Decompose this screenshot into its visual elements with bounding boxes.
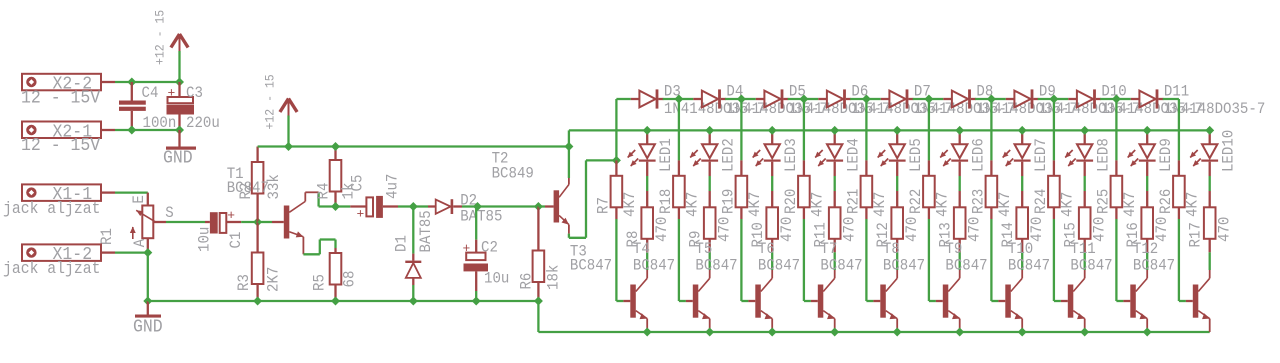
diode D2 bbox=[413, 192, 502, 226]
svg-text:BC847: BC847 bbox=[1070, 256, 1112, 274]
svg-text:R21: R21 bbox=[844, 189, 862, 214]
node ladder tap 10 wire bbox=[1178, 99, 1180, 160]
LED LED8 bbox=[1065, 130, 1113, 176]
wire bbox=[1146, 252, 1148, 270]
connector X2-2 bbox=[21, 74, 115, 109]
svg-text:BC847: BC847 bbox=[1008, 256, 1050, 274]
svg-text:LED5: LED5 bbox=[907, 138, 925, 172]
resistor R14 (470) bbox=[999, 191, 1046, 252]
junction bbox=[1018, 328, 1027, 337]
node ladder tap 9 wire bbox=[1115, 99, 1117, 160]
resistor R22 (4K7) bbox=[907, 160, 952, 219]
junction bbox=[175, 126, 184, 135]
svg-text:R17: R17 bbox=[1187, 222, 1205, 247]
wire (to transistor base) bbox=[616, 219, 623, 301]
junction bbox=[127, 78, 136, 87]
svg-text:R23: R23 bbox=[969, 189, 987, 214]
potentiometer R1 bbox=[98, 193, 174, 253]
svg-text:4K7: 4K7 bbox=[808, 192, 826, 217]
wire bbox=[287, 116, 289, 147]
svg-text:C5: C5 bbox=[349, 175, 367, 192]
LED LED2 bbox=[690, 130, 738, 176]
transistor T5 bbox=[686, 240, 738, 332]
svg-text:LED1: LED1 bbox=[657, 138, 675, 172]
junction bbox=[253, 297, 262, 306]
resistor R13 (470) bbox=[937, 191, 984, 252]
svg-text:470: 470 bbox=[1091, 217, 1109, 242]
junction bbox=[127, 126, 136, 135]
wire bbox=[834, 176, 836, 191]
wire bbox=[1021, 176, 1023, 191]
node ladder tap 8 wire bbox=[1053, 99, 1055, 160]
junction bbox=[674, 95, 683, 104]
svg-text:C3: C3 bbox=[186, 84, 203, 102]
svg-text:LED4: LED4 bbox=[845, 138, 863, 172]
resistor R11 (470) bbox=[812, 191, 859, 252]
resistor R10 (470) bbox=[749, 191, 796, 252]
svg-text:68: 68 bbox=[341, 271, 359, 288]
svg-text:T11: T11 bbox=[1070, 240, 1095, 258]
svg-text:LED8: LED8 bbox=[1095, 138, 1113, 172]
diode D5 bbox=[741, 83, 890, 119]
svg-text:A: A bbox=[131, 238, 149, 247]
svg-text:LED2: LED2 bbox=[720, 138, 738, 172]
wire bbox=[709, 176, 711, 191]
junction bbox=[564, 142, 573, 151]
svg-text:470: 470 bbox=[716, 217, 734, 242]
junction bbox=[830, 126, 839, 135]
svg-text:S: S bbox=[165, 204, 173, 222]
node ladder tap 7 wire bbox=[990, 99, 992, 160]
svg-text:BC847: BC847 bbox=[227, 179, 269, 197]
wire bbox=[1209, 252, 1211, 270]
svg-text:+: + bbox=[227, 208, 235, 223]
svg-text:R1: R1 bbox=[98, 228, 116, 245]
wire (T1 collector to R4 node) bbox=[319, 192, 336, 206]
svg-text:T8: T8 bbox=[883, 240, 900, 258]
svg-text:T9: T9 bbox=[945, 240, 962, 258]
svg-text:R5: R5 bbox=[310, 274, 328, 291]
diode D6 bbox=[804, 83, 953, 119]
junction bbox=[1080, 328, 1089, 337]
svg-text:D11: D11 bbox=[1164, 83, 1189, 101]
junction bbox=[409, 297, 418, 306]
junction bbox=[409, 202, 418, 211]
wire (to transistor base) bbox=[866, 219, 873, 301]
resistor R18 (4K7) bbox=[657, 160, 702, 219]
LED LED1 bbox=[627, 130, 675, 176]
svg-text:470: 470 bbox=[903, 217, 921, 242]
svg-text:BAT85: BAT85 bbox=[460, 208, 502, 226]
LED LED4 bbox=[815, 130, 863, 176]
diode D4 bbox=[679, 83, 828, 119]
resistor R23 (4K7) bbox=[969, 160, 1014, 219]
LED LED6 bbox=[940, 130, 988, 176]
resistor R19 (4K7) bbox=[719, 160, 764, 219]
wire (to transistor base) bbox=[991, 219, 998, 301]
svg-text:T12: T12 bbox=[1133, 240, 1158, 258]
wire bbox=[1084, 252, 1086, 270]
svg-text:R18: R18 bbox=[657, 189, 675, 214]
resistor R16 (470) bbox=[1124, 191, 1171, 252]
svg-text:T5: T5 bbox=[695, 240, 712, 258]
svg-text:10u: 10u bbox=[196, 227, 214, 252]
svg-text:D1: D1 bbox=[392, 235, 410, 252]
connector X1-2 bbox=[3, 244, 115, 278]
resistor R20 (4K7) bbox=[782, 160, 827, 219]
svg-text:R25: R25 bbox=[1094, 189, 1112, 214]
wire bbox=[115, 129, 180, 131]
junction bbox=[1049, 95, 1058, 104]
junction bbox=[737, 95, 746, 104]
svg-text:BC847: BC847 bbox=[945, 256, 987, 274]
diode D7 bbox=[866, 83, 1015, 119]
junction bbox=[643, 126, 652, 135]
transistor T9 bbox=[936, 240, 988, 332]
wire bbox=[959, 252, 961, 270]
svg-text:R7: R7 bbox=[594, 197, 612, 214]
svg-text:BAT85: BAT85 bbox=[417, 210, 435, 252]
junction bbox=[143, 248, 152, 257]
svg-text:C1: C1 bbox=[227, 232, 245, 249]
wire (to LED emitter rail) bbox=[538, 301, 1209, 332]
svg-text:T7: T7 bbox=[820, 240, 837, 258]
junction bbox=[830, 328, 839, 337]
svg-text:470: 470 bbox=[1216, 217, 1234, 242]
resistor R2 bbox=[237, 147, 283, 223]
svg-text:BC847: BC847 bbox=[820, 256, 862, 274]
node ladder tap 5 wire bbox=[865, 99, 867, 160]
svg-text:C4: C4 bbox=[142, 84, 159, 102]
junction bbox=[705, 328, 714, 337]
resistor R25 (4K7) bbox=[1094, 160, 1139, 219]
svg-text:LED6: LED6 bbox=[970, 138, 988, 172]
transistor T12 bbox=[1123, 240, 1175, 332]
LED LED7 bbox=[1002, 130, 1050, 176]
junction bbox=[1112, 95, 1121, 104]
wire bbox=[178, 51, 180, 82]
svg-text:4u7: 4u7 bbox=[384, 174, 402, 199]
svg-text:+12 - 15: +12 - 15 bbox=[264, 74, 278, 129]
transistor T8 bbox=[873, 240, 925, 332]
svg-text:220u: 220u bbox=[186, 114, 220, 132]
svg-text:T6: T6 bbox=[758, 240, 775, 258]
svg-text:T10: T10 bbox=[1008, 240, 1033, 258]
svg-text:R26: R26 bbox=[1157, 189, 1175, 214]
junction bbox=[331, 202, 340, 211]
wire (to transistor base) bbox=[1179, 219, 1186, 301]
wire (T2 emitter to threshold ladder) bbox=[569, 160, 617, 237]
junction bbox=[534, 297, 543, 306]
node ladder tap 1 wire bbox=[615, 99, 617, 160]
svg-text:4K7: 4K7 bbox=[1183, 192, 1201, 217]
svg-text:E: E bbox=[130, 195, 148, 203]
svg-text:+12 - 15: +12 - 15 bbox=[154, 10, 168, 65]
resistor R15 (470) bbox=[1062, 191, 1109, 252]
svg-text:jack aljzat: jack aljzat bbox=[3, 199, 100, 218]
junction bbox=[1080, 126, 1089, 135]
node ladder tap 4 wire bbox=[803, 99, 805, 160]
svg-text:LED9: LED9 bbox=[1157, 138, 1175, 172]
svg-text:4K7: 4K7 bbox=[1058, 192, 1076, 217]
resistor R26 (4K7) bbox=[1157, 160, 1202, 219]
svg-text:470: 470 bbox=[1153, 217, 1171, 242]
resistor R21 (4K7) bbox=[844, 160, 889, 219]
wire (LED anode rail) bbox=[569, 129, 1210, 131]
node ladder tap 2 wire bbox=[678, 99, 680, 160]
svg-text:R3: R3 bbox=[235, 274, 253, 291]
resistor R8 (470) bbox=[624, 191, 671, 252]
wire bbox=[646, 252, 648, 270]
svg-text:R22: R22 bbox=[907, 189, 925, 214]
svg-text:BC847: BC847 bbox=[633, 256, 675, 274]
svg-text:4K7: 4K7 bbox=[683, 192, 701, 217]
wire bbox=[1209, 176, 1211, 191]
diode D9 bbox=[991, 83, 1140, 119]
svg-text:C2: C2 bbox=[481, 239, 498, 257]
svg-text:BC847: BC847 bbox=[695, 256, 737, 274]
junction bbox=[331, 142, 340, 151]
wire (to transistor base) bbox=[804, 219, 811, 301]
junction bbox=[1018, 126, 1027, 135]
connector X1-1 bbox=[3, 184, 115, 218]
wire bbox=[1084, 176, 1086, 191]
wire bbox=[771, 252, 773, 270]
svg-text:4K7: 4K7 bbox=[746, 192, 764, 217]
junction bbox=[987, 95, 996, 104]
LED LED10 bbox=[1190, 130, 1238, 176]
svg-text:12 - 15V: 12 - 15V bbox=[21, 88, 100, 108]
junction bbox=[862, 95, 871, 104]
wire (to transistor base) bbox=[1116, 219, 1123, 301]
transistor T10 bbox=[998, 240, 1050, 332]
svg-text:GND: GND bbox=[163, 149, 193, 169]
diode D8 bbox=[929, 83, 1078, 119]
ground GND (bottom) bbox=[133, 301, 163, 338]
resistor R6 bbox=[518, 207, 563, 302]
junction bbox=[924, 95, 933, 104]
wire (to transistor base) bbox=[1054, 219, 1061, 301]
wire (V+ feed line) bbox=[258, 145, 569, 147]
transistor T11 bbox=[1061, 240, 1113, 332]
resistor R4 bbox=[314, 147, 357, 207]
wire bbox=[959, 176, 961, 191]
svg-text:10u: 10u bbox=[484, 269, 509, 287]
junction bbox=[472, 297, 481, 306]
wire bbox=[896, 176, 898, 191]
diode D11 bbox=[1116, 83, 1265, 119]
svg-text:470: 470 bbox=[841, 217, 859, 242]
LED LED3 bbox=[752, 130, 800, 176]
wire bbox=[771, 176, 773, 191]
resistor R7 (4K7) bbox=[594, 160, 639, 219]
wire bbox=[709, 252, 711, 270]
transistor T13 bbox=[1186, 270, 1210, 332]
svg-text:R19: R19 bbox=[719, 189, 737, 214]
junction bbox=[768, 328, 777, 337]
junction bbox=[893, 328, 902, 337]
wire bbox=[896, 252, 898, 270]
svg-text:BC847: BC847 bbox=[883, 256, 925, 274]
svg-text:GND: GND bbox=[133, 318, 163, 338]
junction bbox=[768, 126, 777, 135]
junction bbox=[705, 126, 714, 135]
svg-text:+: + bbox=[357, 207, 365, 222]
svg-text:LED10: LED10 bbox=[1220, 130, 1238, 172]
svg-text:R24: R24 bbox=[1032, 189, 1050, 214]
junction bbox=[799, 95, 808, 104]
svg-text:jack aljzat: jack aljzat bbox=[3, 259, 100, 278]
svg-text:470: 470 bbox=[1028, 217, 1046, 242]
junction bbox=[175, 78, 184, 87]
junction bbox=[331, 297, 340, 306]
wire (T1 emitter to R5) bbox=[303, 240, 335, 255]
svg-text:LED3: LED3 bbox=[782, 138, 800, 172]
power symbol +12-15 (P1) bbox=[154, 10, 189, 65]
junction bbox=[284, 142, 293, 151]
svg-text:BC849: BC849 bbox=[492, 165, 534, 183]
junction (T1 base node) bbox=[253, 218, 262, 227]
svg-text:4K7: 4K7 bbox=[871, 192, 889, 217]
LED LED9 bbox=[1127, 130, 1175, 176]
transistor T4 bbox=[623, 240, 675, 332]
wire (T2 collector up) bbox=[568, 130, 570, 178]
junction bbox=[473, 202, 482, 211]
wire bbox=[1021, 252, 1023, 270]
junction bbox=[534, 202, 543, 211]
capacitor C2 bbox=[463, 207, 510, 302]
svg-text:BC847: BC847 bbox=[570, 256, 612, 274]
svg-text:BC847: BC847 bbox=[1133, 256, 1175, 274]
wire bbox=[478, 205, 539, 207]
resistor R3 bbox=[235, 222, 283, 301]
transistor T7 bbox=[811, 240, 863, 332]
capacitor C4 bbox=[119, 82, 176, 132]
junction bbox=[612, 156, 621, 165]
transistor T2 / T3 (BC849/BC847) bbox=[492, 149, 613, 274]
svg-text:LED7: LED7 bbox=[1032, 138, 1050, 172]
svg-text:12 - 15V: 12 - 15V bbox=[21, 136, 100, 156]
svg-text:2K7: 2K7 bbox=[265, 267, 283, 292]
junction bbox=[143, 297, 152, 306]
node ladder tap 3 wire bbox=[740, 99, 742, 160]
junction bbox=[1143, 328, 1152, 337]
resistor R12 (470) bbox=[874, 191, 921, 252]
diode D1 bbox=[392, 207, 435, 302]
wire bbox=[147, 253, 149, 301]
capacitor C1 bbox=[166, 208, 258, 252]
diode D10 bbox=[1054, 83, 1203, 119]
transistor T1 bbox=[227, 165, 319, 254]
transistor T6 bbox=[748, 240, 800, 332]
svg-text:R6: R6 bbox=[518, 273, 536, 290]
resistor R24 (4K7) bbox=[1032, 160, 1077, 219]
junction bbox=[1205, 126, 1214, 135]
junction bbox=[893, 126, 902, 135]
wire bbox=[1146, 176, 1148, 191]
ground GND (top) bbox=[163, 130, 196, 169]
wire bbox=[115, 81, 180, 83]
svg-text:R4: R4 bbox=[314, 183, 332, 200]
wire (to transistor base) bbox=[741, 219, 748, 301]
junction bbox=[955, 126, 964, 135]
connector X2-1 bbox=[21, 122, 115, 157]
wire (ground rail) bbox=[148, 300, 539, 302]
junction bbox=[955, 328, 964, 337]
svg-text:BC847: BC847 bbox=[758, 256, 800, 274]
svg-text:4K7: 4K7 bbox=[933, 192, 951, 217]
wire bbox=[834, 252, 836, 270]
capacitor C5 bbox=[336, 174, 414, 222]
wire (to transistor base) bbox=[679, 219, 686, 301]
wire bbox=[115, 251, 148, 253]
power symbol +12-15 (P2) bbox=[264, 74, 298, 129]
svg-text:4K7: 4K7 bbox=[621, 192, 639, 217]
capacitor C3 bbox=[167, 82, 220, 132]
node ladder tap 6 wire bbox=[928, 99, 930, 160]
svg-text:R20: R20 bbox=[782, 189, 800, 214]
junction bbox=[1143, 126, 1152, 135]
resistor R9 (470) bbox=[687, 191, 734, 252]
svg-text:T4: T4 bbox=[633, 240, 650, 258]
wire bbox=[646, 176, 648, 191]
diode D3 bbox=[616, 83, 765, 119]
junction bbox=[643, 328, 652, 337]
svg-text:4K7: 4K7 bbox=[1121, 192, 1139, 217]
resistor R5 bbox=[310, 248, 358, 301]
LED LED5 bbox=[877, 130, 925, 176]
svg-text:470: 470 bbox=[966, 217, 984, 242]
svg-text:18k: 18k bbox=[545, 265, 563, 290]
svg-text:470: 470 bbox=[653, 217, 671, 242]
svg-text:4K7: 4K7 bbox=[996, 192, 1014, 217]
wire (to transistor base) bbox=[929, 219, 936, 301]
svg-text:470: 470 bbox=[778, 217, 796, 242]
resistor R17 (470) bbox=[1187, 191, 1234, 252]
wire bbox=[115, 191, 148, 193]
